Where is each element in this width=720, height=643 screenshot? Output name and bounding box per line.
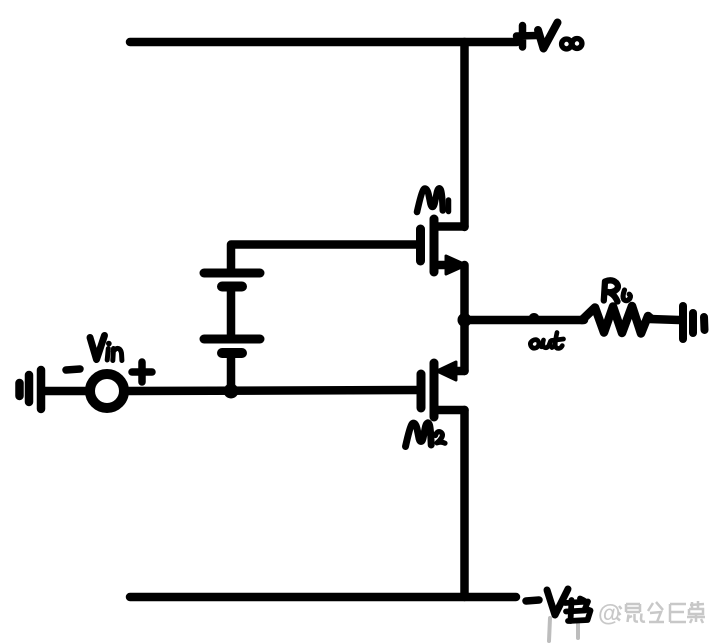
wire battery top to M1 gate — [231, 245, 421, 274]
battery B1 — [204, 273, 260, 339]
wire Vin to M2 gate — [128, 390, 421, 391]
label out — [530, 333, 563, 349]
wire ground to Vin — [45, 387, 86, 396]
svg-text:@: @ — [598, 600, 620, 626]
transistor M1 — [421, 219, 467, 274]
wire M1 source to M2 source through out node — [460, 265, 469, 371]
node bias junction — [224, 384, 239, 399]
wire out node to resistor — [465, 316, 585, 325]
polarity minus — [66, 369, 80, 370]
label RL — [604, 280, 631, 301]
watermark zhihu gray descenders — [549, 618, 578, 641]
power rail -VSS — [130, 593, 516, 602]
label M1 — [417, 188, 449, 212]
label +VDD — [517, 23, 582, 49]
wire VDD rail to M1 drain — [460, 42, 469, 227]
node on out wire — [529, 313, 540, 324]
label -VSS — [526, 589, 591, 621]
ground (right, sideways) — [683, 306, 705, 339]
source Vin — [90, 374, 124, 408]
transistor M2 — [421, 362, 465, 417]
wire M2 drain to VSS rail — [460, 410, 469, 597]
ground (left, sideways) — [20, 370, 42, 409]
power rail +VDD — [130, 38, 517, 47]
watermark handle gray — [598, 600, 705, 626]
wire resistor to ground — [650, 319, 679, 320]
node out junction — [458, 313, 472, 327]
polarity plus — [132, 362, 152, 382]
resistor RL — [582, 306, 651, 334]
label Vin — [90, 336, 122, 361]
battery B2 — [204, 339, 260, 391]
label M2 — [406, 423, 446, 447]
